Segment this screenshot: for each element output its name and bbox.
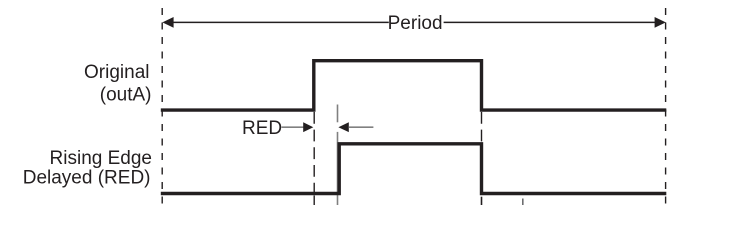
svg-text:Rising Edge: Rising Edge <box>50 148 152 169</box>
svg-text:RED: RED <box>242 118 282 139</box>
svg-text:Period: Period <box>388 13 443 34</box>
svg-text:Original: Original <box>84 62 149 83</box>
svg-text:(outA): (outA) <box>100 84 152 105</box>
svg-text:Delayed (RED): Delayed (RED) <box>23 168 151 189</box>
